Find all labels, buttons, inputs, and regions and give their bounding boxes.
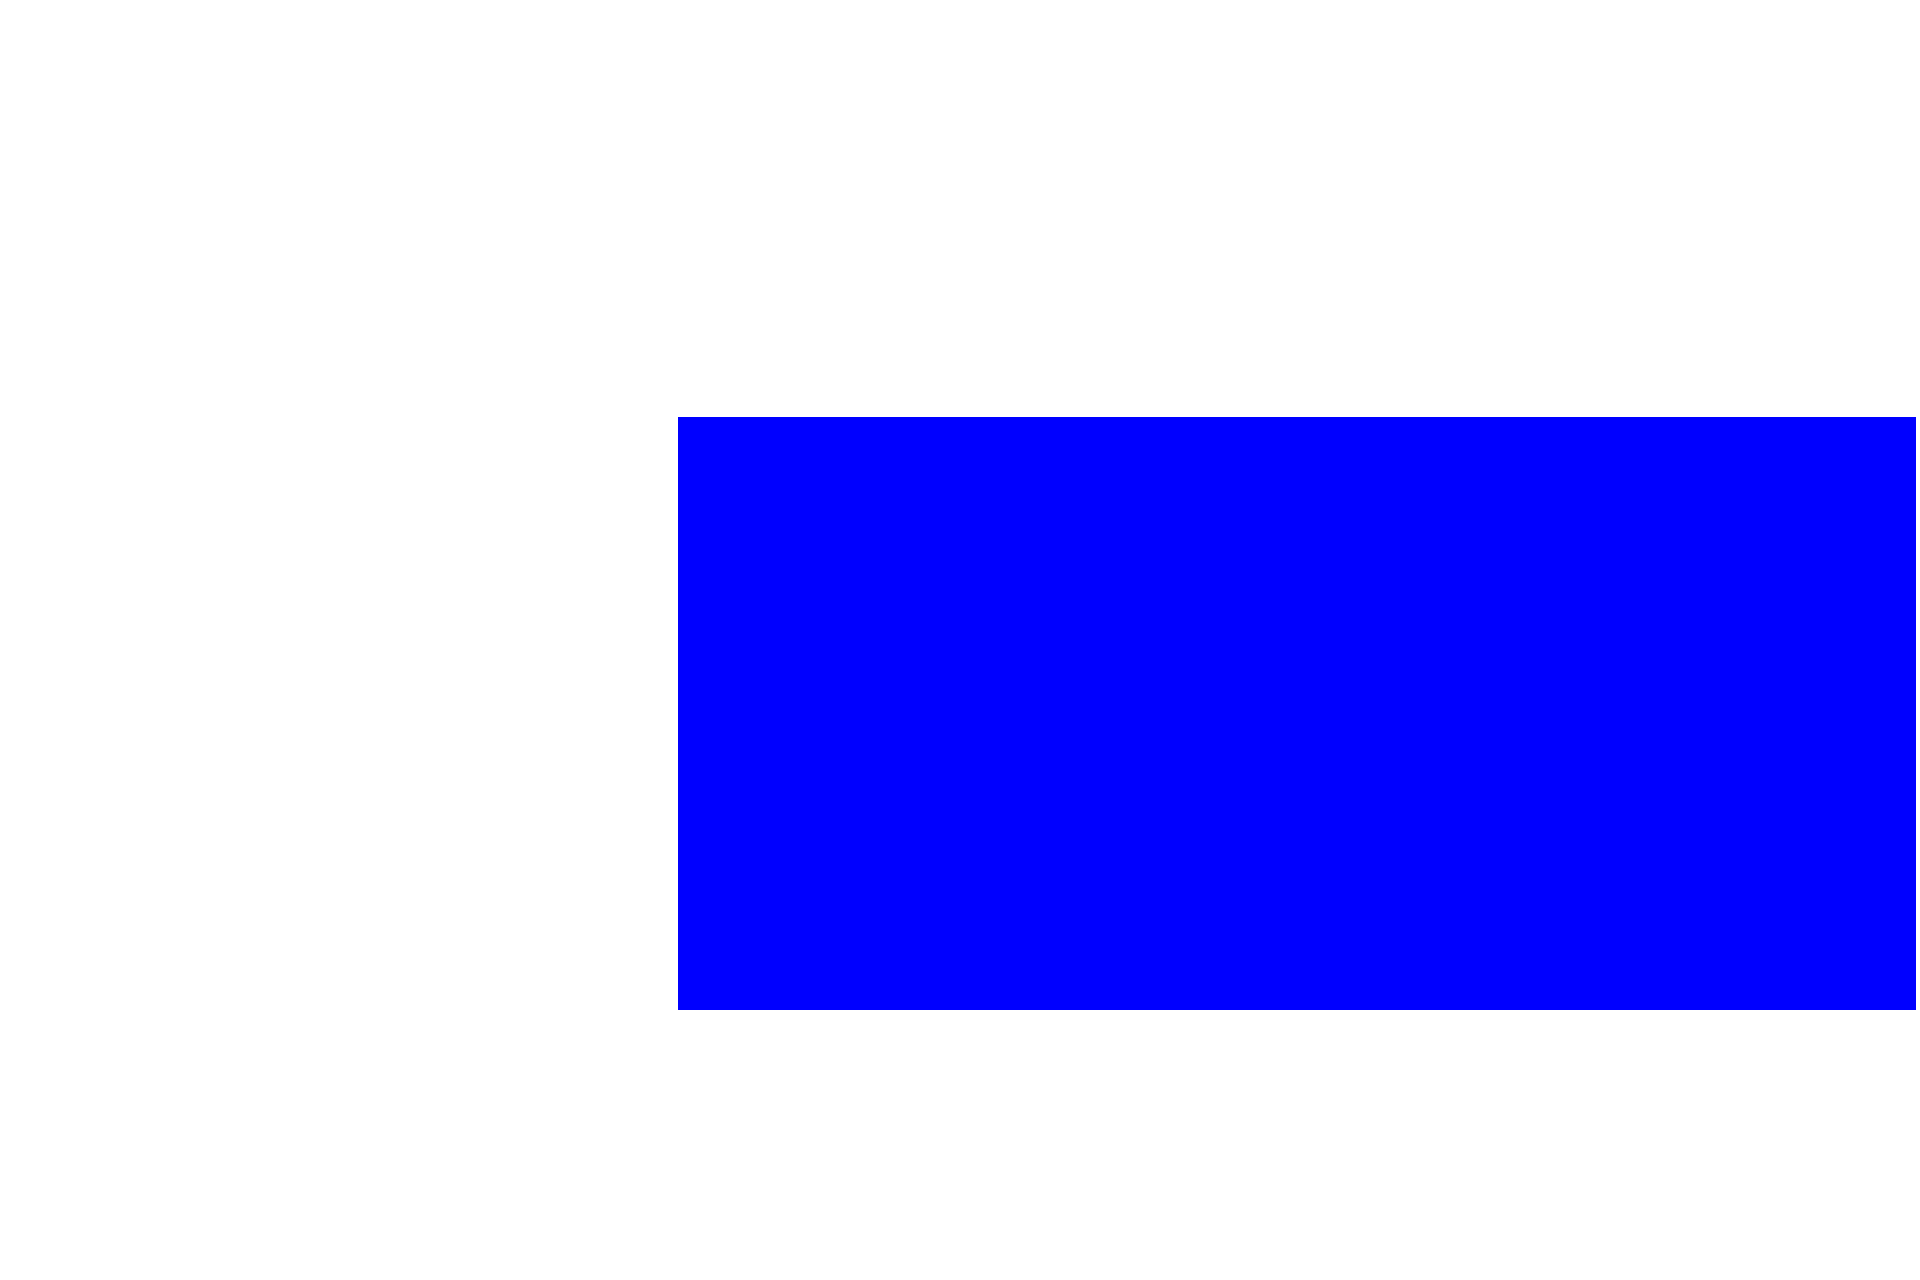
blue rectangle: [678, 417, 1916, 1010]
